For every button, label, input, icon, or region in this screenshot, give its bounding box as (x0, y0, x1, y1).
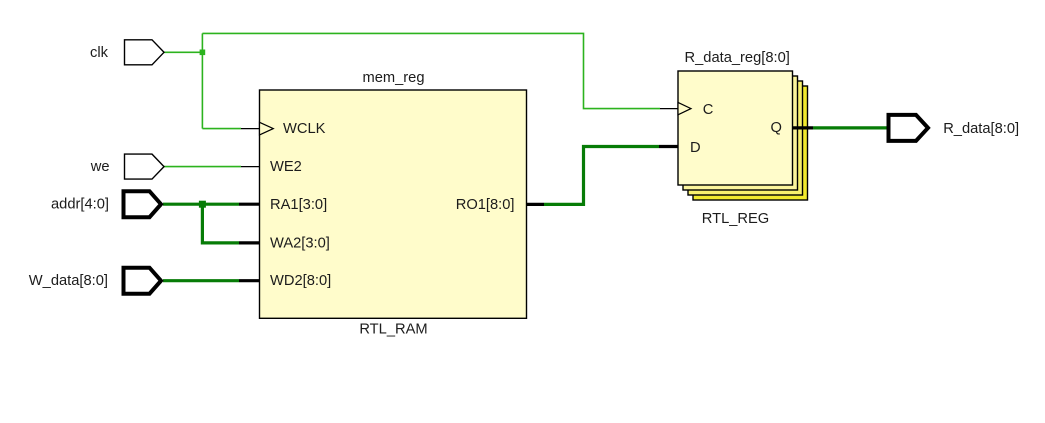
svg-text:C: C (703, 102, 714, 118)
svg-text:clk: clk (90, 45, 109, 61)
svg-text:D: D (690, 140, 701, 156)
svg-text:WCLK: WCLK (283, 121, 326, 137)
svg-text:R_data[8:0]: R_data[8:0] (943, 121, 1019, 137)
svg-text:RO1[8:0]: RO1[8:0] (456, 197, 515, 213)
svg-text:WA2[3:0]: WA2[3:0] (270, 235, 330, 251)
svg-text:we: we (90, 159, 110, 175)
svg-text:mem_reg: mem_reg (362, 70, 424, 86)
svg-text:RTL_REG: RTL_REG (702, 211, 769, 227)
svg-text:WD2[8:0]: WD2[8:0] (270, 273, 331, 289)
svg-text:WE2: WE2 (270, 159, 302, 175)
svg-text:addr[4:0]: addr[4:0] (51, 196, 109, 212)
svg-text:RTL_RAM: RTL_RAM (359, 322, 427, 338)
svg-text:W_data[8:0]: W_data[8:0] (29, 273, 108, 289)
svg-text:Q: Q (771, 120, 782, 136)
svg-text:RA1[3:0]: RA1[3:0] (270, 197, 327, 213)
svg-text:R_data_reg[8:0]: R_data_reg[8:0] (685, 50, 790, 66)
